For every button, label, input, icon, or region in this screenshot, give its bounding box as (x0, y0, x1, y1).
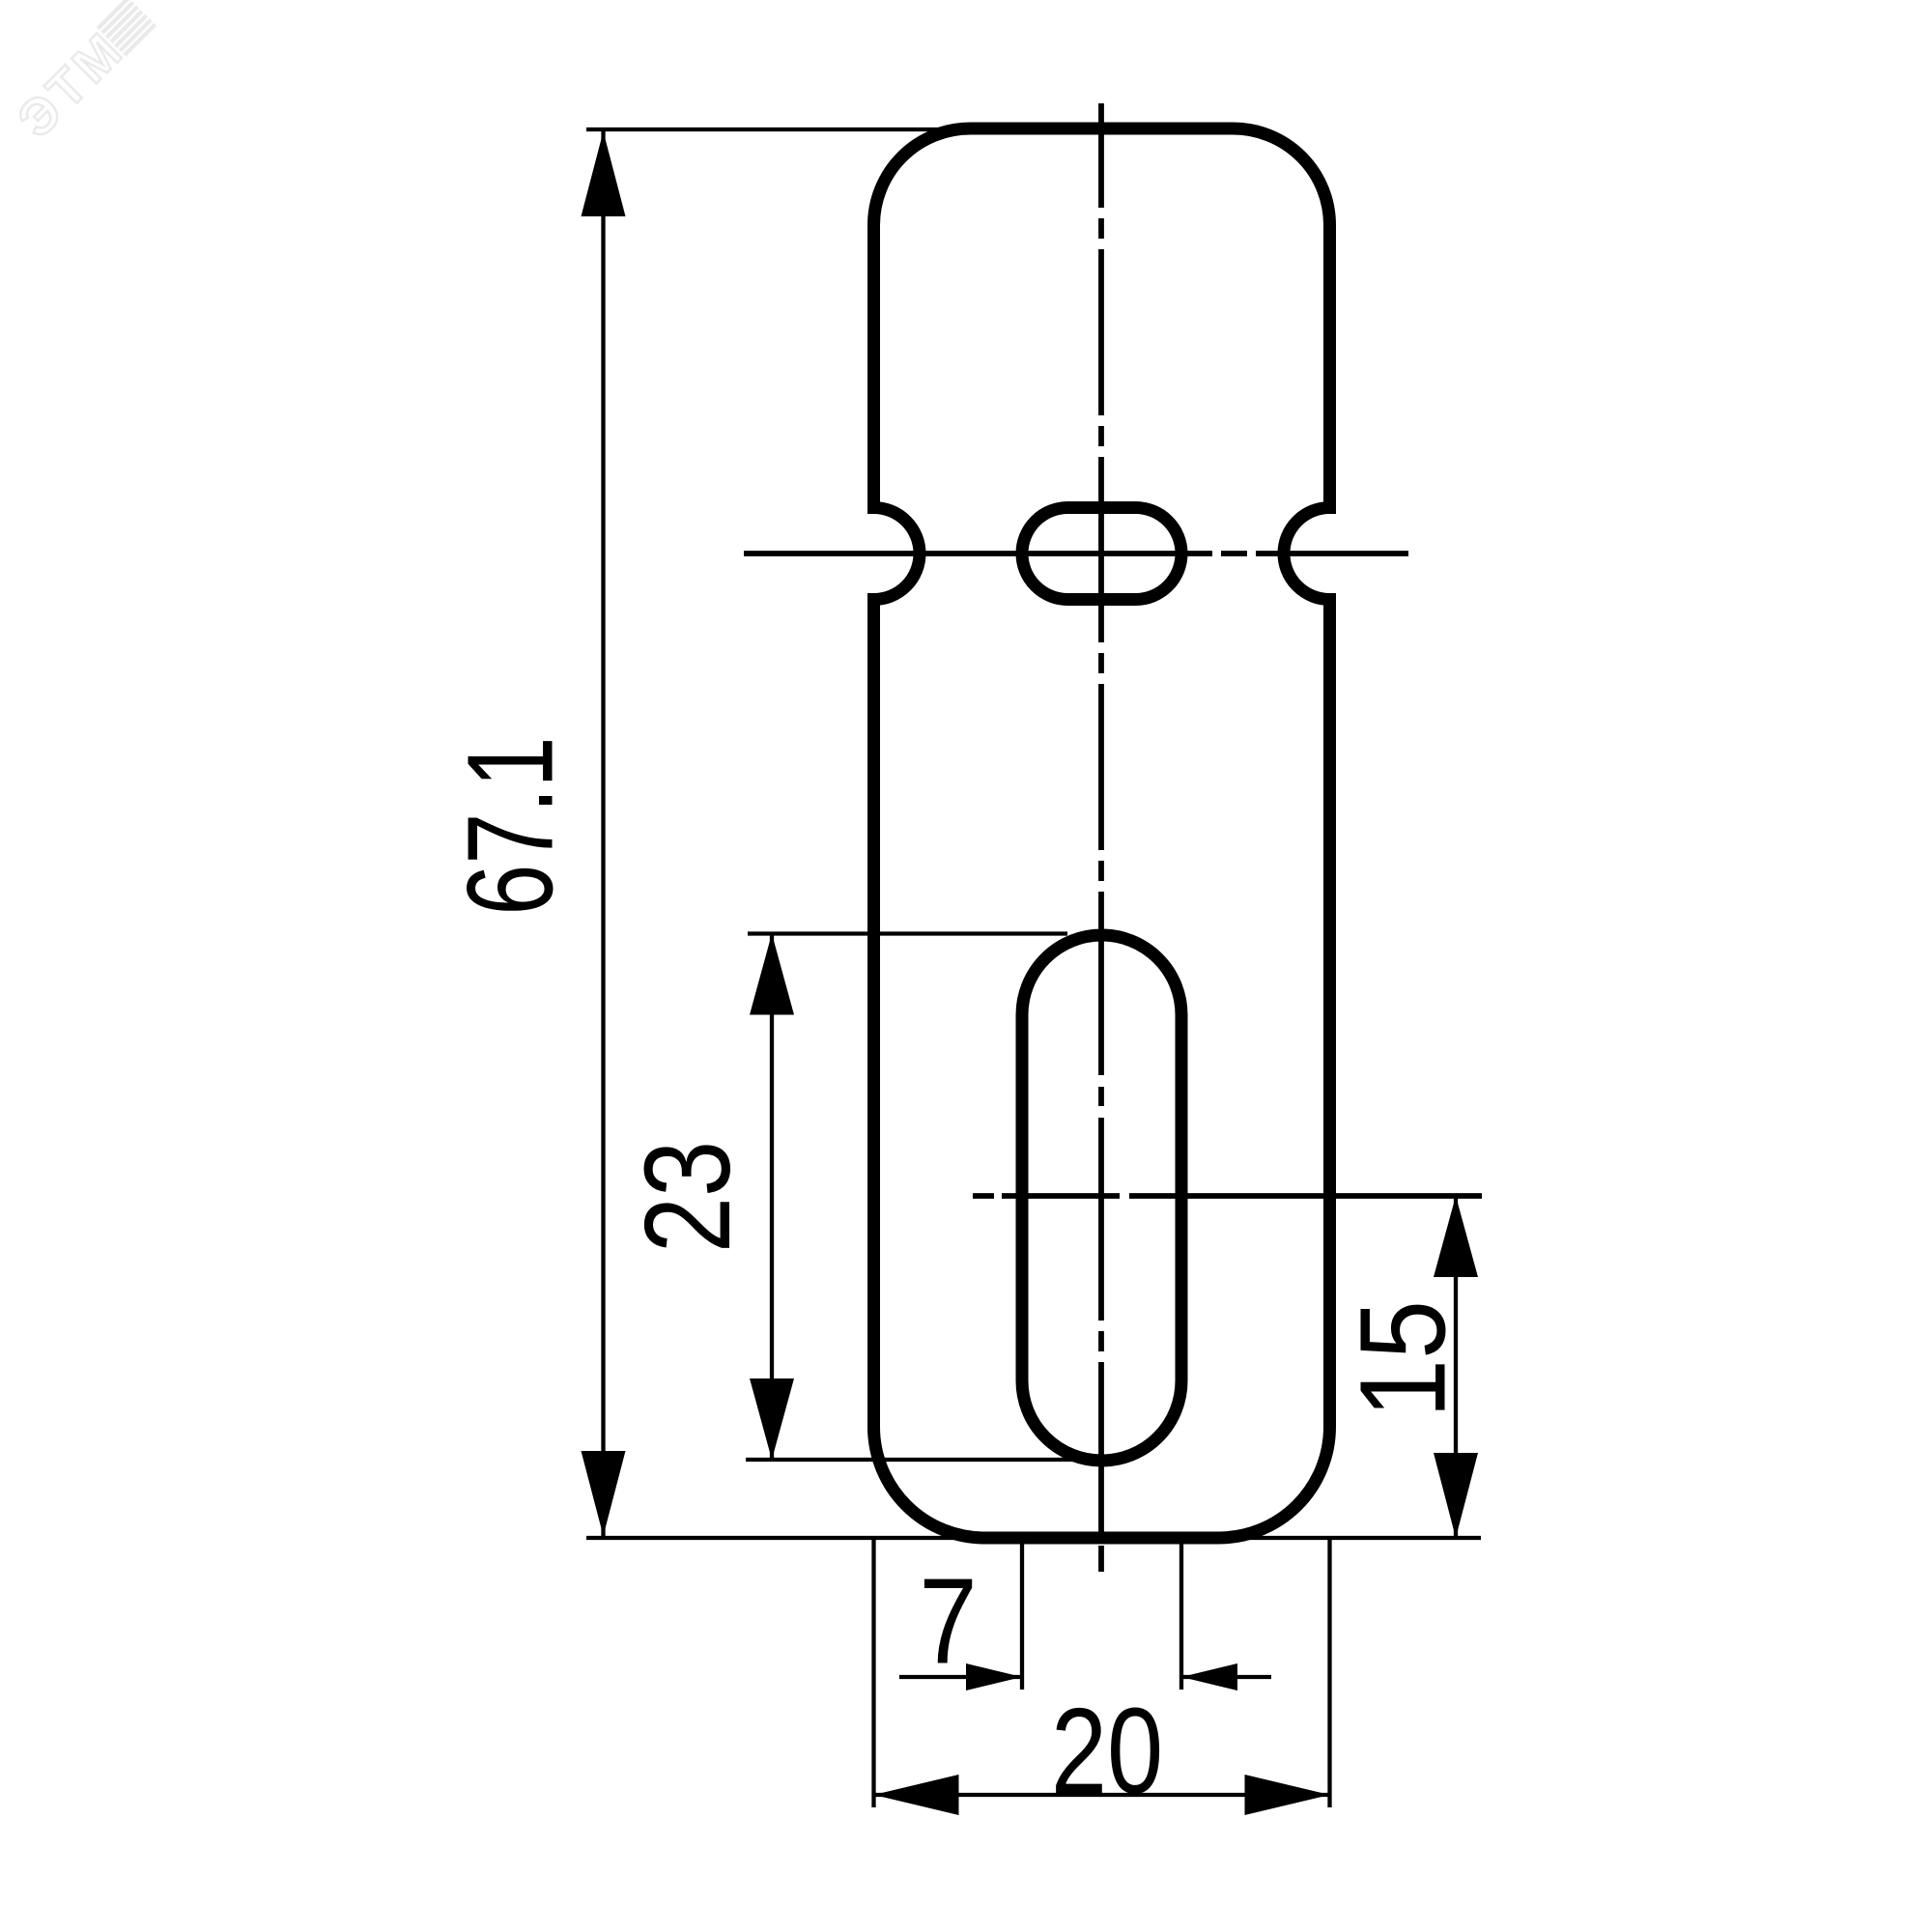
top oval hole (1022, 508, 1181, 600)
svg-text:23: 23 (619, 1141, 755, 1253)
arrowhead 15 bottom (1434, 1453, 1478, 1538)
vertical centerline (1098, 103, 1104, 1572)
svg-text:7: 7 (919, 1553, 977, 1689)
extension line, plate top (586, 128, 976, 131)
extension line, plate right edge (20) (1327, 1540, 1331, 1807)
arrowhead 23 bottom (750, 1378, 794, 1460)
svg-text:20: 20 (1051, 1683, 1163, 1819)
dimension 67.1 line (582, 131, 626, 1536)
dimension 7 line (899, 1663, 1271, 1690)
arrowhead 7 right (1181, 1663, 1237, 1690)
arrowhead 15 top (1434, 1196, 1478, 1277)
arrowhead 20 right (1245, 1775, 1330, 1815)
watermark hatched mark (98, 0, 155, 55)
dimension 23 line (750, 934, 794, 1461)
slot horizontal centerline (973, 1193, 1482, 1199)
extension line, slot right edge (7) (1179, 1540, 1183, 1690)
arrowhead 23 top (750, 934, 794, 1015)
extension line, slot left edge (7) (1020, 1540, 1024, 1690)
horizontal centerline through notches and oval (744, 551, 1408, 556)
arrowhead 7 left (966, 1663, 1022, 1690)
arrowhead 20 left (874, 1775, 959, 1815)
extension line, slot top (23) (748, 931, 1067, 935)
arrowhead 67.1 top (582, 131, 626, 216)
dimension 20 line (874, 1775, 1330, 1815)
extension line, plate bottom (shared by 67.1 and 15) (586, 1536, 1481, 1540)
vertical slot hole (1022, 935, 1181, 1461)
svg-text:15: 15 (1335, 1300, 1471, 1418)
dimension 15 line (1434, 1196, 1478, 1538)
plate outline with edge notches (874, 128, 1330, 1538)
extension line, plate left edge (20) (871, 1540, 875, 1807)
arrowhead 67.1 bottom (582, 1451, 626, 1536)
extension line, slot bottom (23) (746, 1458, 1107, 1462)
watermark ETM logo (7, 0, 163, 149)
svg-text:67.1: 67.1 (442, 736, 579, 915)
